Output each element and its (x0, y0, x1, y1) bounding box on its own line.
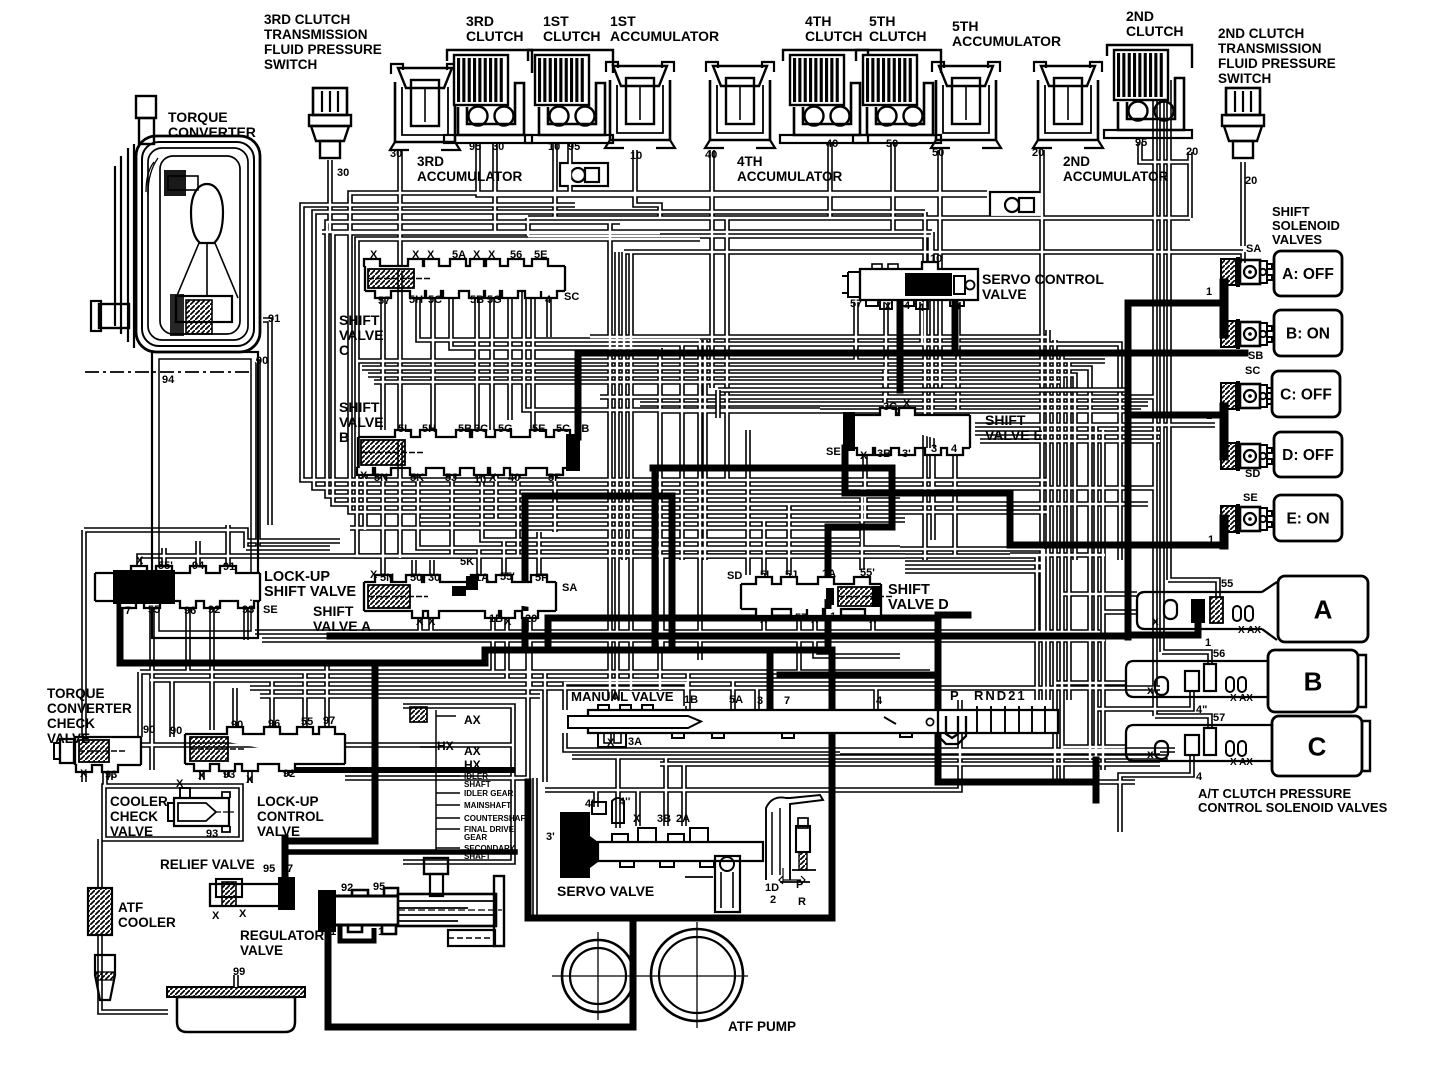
wire run y232 (322, 229, 932, 235)
wire run y368 (362, 368, 1090, 760)
servo accumulator tube (685, 856, 740, 912)
wire LCV stub X (199, 765, 205, 780)
svg-text:5J: 5J (785, 569, 797, 581)
svg-text:MANUAL VALVE: MANUAL VALVE (571, 689, 674, 704)
wire 3rd clutch line 95 (478, 142, 575, 195)
svg-text:SD: SD (727, 570, 742, 582)
svg-text:1D: 1D (765, 882, 779, 894)
shift solenoid B (1221, 319, 1272, 349)
wire thick y675 (780, 672, 938, 679)
svg-text:90: 90 (231, 719, 243, 731)
svg-text:5E: 5E (532, 423, 545, 435)
svg-text:X: X (360, 470, 368, 482)
svg-text:X AX: X AX (1230, 757, 1253, 768)
svg-text:95: 95 (469, 141, 481, 153)
svg-text:10: 10 (930, 253, 942, 265)
svg-text:A: A (1314, 594, 1333, 624)
wire TCCV riser 90a (137, 672, 143, 737)
wire thick SCV 4 down (897, 300, 904, 390)
wire box SVC 2 (302, 205, 1048, 480)
wire TCCV stub 93 (107, 768, 113, 780)
svg-text:X: X (412, 249, 420, 261)
manual valve X 3A port box (598, 733, 626, 747)
wire run y752 (840, 749, 1160, 755)
accumulator 4TH (705, 62, 775, 148)
wire run y520 (420, 517, 905, 523)
shift valve D spool black land (826, 586, 881, 607)
wire LUSV 93 down (243, 601, 249, 640)
svg-text:P: P (796, 879, 803, 891)
wire thick y770 (290, 767, 512, 773)
svg-text:3B: 3B (877, 448, 891, 460)
svg-text:7: 7 (784, 695, 790, 707)
shift solenoid C (1221, 381, 1272, 411)
wire LCV stub 96 up (269, 680, 275, 727)
wire run y195 (575, 192, 987, 198)
svg-text:X: X (427, 249, 435, 261)
svg-text:3C: 3C (883, 401, 897, 413)
svg-text:5N: 5N (374, 472, 388, 484)
svg-text:SA: SA (562, 582, 577, 594)
shift valve C (364, 259, 565, 298)
svg-text:2: 2 (770, 894, 776, 906)
svg-text:3': 3' (902, 448, 911, 460)
wire 2nd TFPS line 20 (1240, 162, 1246, 246)
manual valve detent (P RND21) (884, 706, 1045, 744)
svg-text:5A: 5A (452, 249, 466, 261)
svg-text:91: 91 (223, 561, 235, 573)
svg-text:AX: AX (464, 744, 481, 758)
clutch 3RD (444, 50, 532, 143)
wire solenoid A-B jumper (1220, 283, 1229, 334)
svg-text:X: X (607, 737, 615, 749)
wire SVC port 4 (546, 291, 552, 337)
svg-text:30: 30 (492, 141, 504, 153)
svg-text:1: 1 (1205, 637, 1211, 649)
svg-text:X: X (136, 555, 144, 567)
pressure switch 3rd clutch TFPS (309, 88, 351, 158)
svg-text:SB: SB (1248, 350, 1263, 362)
solenoid state box D (1274, 432, 1342, 477)
wire box SVD left2 (659, 556, 665, 650)
wire y390 drop (715, 390, 721, 418)
wire vertical x727 (724, 218, 730, 480)
wire 2nd clutch line 20 (1187, 152, 1193, 218)
wire box SVD right (1041, 549, 1047, 700)
wire cores (white centers of all pipes) (84, 60, 1243, 1012)
wire thick 3prime (828, 468, 892, 650)
solenoid state box C (1272, 371, 1340, 417)
shaft pointer lines (410, 707, 460, 850)
wire SVA 1A up (476, 548, 482, 575)
wire SVB 40 (515, 468, 521, 556)
wire thick y782 (938, 779, 1096, 786)
clutch 2ND (1104, 45, 1192, 138)
wire SVA up1 (380, 558, 386, 575)
wire SVA 1B down (490, 611, 496, 672)
wire run y361 (356, 358, 1105, 364)
svg-text:P: P (950, 688, 959, 703)
svg-text:4: 4 (876, 695, 883, 707)
svg-text:D: OFF: D: OFF (1282, 447, 1334, 464)
wire vertical x1103 (1100, 430, 1106, 770)
check valve (orifice) top-left (560, 163, 608, 186)
wire cooler to pan (100, 935, 168, 1012)
wire thick y636 (330, 633, 1128, 640)
wire 3rd accumulator line 30 (397, 150, 403, 558)
wire servo control 10 feed (528, 236, 930, 263)
wire 90 line (256, 362, 258, 548)
check valve (orifice) near 2nd accumulator (990, 192, 1042, 217)
wire run y778l (345, 775, 528, 781)
cooler check valve (168, 788, 234, 832)
svg-text:30: 30 (337, 167, 349, 179)
svg-text:2A: 2A (676, 813, 690, 825)
wire container A feed 2 (1103, 609, 1138, 615)
wire box cooler check group (104, 786, 241, 839)
solenoid state box E (1274, 495, 1342, 541)
wire SVD down2 (796, 612, 802, 672)
svg-text:1A: 1A (475, 572, 489, 584)
wire vertical x528 (525, 640, 531, 782)
wire LUSV X (139, 556, 560, 565)
svg-text:93: 93 (206, 828, 218, 840)
wire container A port 55 (1168, 580, 1218, 598)
wire to container A (1062, 591, 1137, 597)
wire run y390 (718, 387, 1128, 393)
svg-text:40: 40 (826, 138, 838, 150)
wire SCV 3 (955, 302, 961, 411)
wire run y790 (545, 700, 960, 790)
wire run y640 (262, 637, 1105, 643)
svg-text:5H: 5H (422, 423, 436, 435)
regulator valve (318, 858, 504, 946)
svg-text:X: X (370, 569, 378, 581)
wire SVA 55 up (501, 540, 507, 575)
wire run y571 (905, 568, 1044, 574)
svg-text:5K: 5K (410, 472, 424, 484)
wire SVC port 57 (380, 291, 386, 430)
wire SVC port 56 (507, 291, 513, 420)
wire container B port 4pp (1095, 691, 1192, 709)
svg-text:B: B (1304, 666, 1323, 696)
pressure control solenoid A (1137, 582, 1277, 640)
wire box SVD top (655, 546, 1044, 552)
svg-text:5L: 5L (760, 569, 773, 581)
clutch pressure box B shadow (1358, 655, 1366, 707)
svg-text:1A: 1A (822, 568, 836, 580)
svg-text:4: 4 (918, 302, 925, 314)
wire SVC port 5H (418, 291, 700, 340)
wire vertical x1155 (1152, 60, 1158, 716)
wire thick to A/B solenoids (1128, 300, 1224, 307)
wire SVE 4 (952, 450, 958, 556)
wire elbow x528 (525, 218, 531, 236)
wire LCV stub 92 (284, 765, 290, 776)
clutch pressure box A (1278, 576, 1368, 642)
wire thick x1128 (1125, 303, 1132, 637)
wire box SVC 3 (314, 212, 1155, 488)
wire TCCV riser 90b (169, 680, 175, 737)
wire thick main run (120, 597, 832, 663)
svg-text:10: 10 (630, 150, 642, 162)
wire thick x938 (935, 615, 942, 782)
wire SVA 5F up (536, 532, 542, 575)
servo piston dimension arrows (779, 876, 805, 884)
wire SVD down3 (815, 612, 900, 656)
wire thick SE to E solenoid (845, 448, 1221, 545)
wire manual 1B up (685, 672, 691, 710)
shift valve A (364, 575, 556, 618)
wire servo stub 4p (593, 790, 599, 807)
svg-text:SE: SE (263, 604, 278, 616)
wire manual 4 up (873, 688, 879, 710)
svg-text:RND21: RND21 (974, 688, 1027, 703)
wire left x84 (81, 530, 87, 737)
svg-text:50: 50 (410, 572, 422, 584)
svg-text:X: X (869, 614, 877, 626)
svg-text:SERVO VALVE: SERVO VALVE (557, 883, 654, 899)
svg-text:X: X (473, 249, 481, 261)
shift solenoid E (1221, 504, 1272, 534)
wire vertical x1055 (1052, 340, 1058, 782)
wire 5th clutch line 50 (890, 142, 896, 232)
svg-text:SC: SC (1245, 365, 1260, 377)
wire to container B (1055, 680, 1126, 686)
clutch pressure box C (1272, 716, 1362, 776)
wire SVB X (362, 468, 368, 530)
wire box SVC right edge (922, 212, 928, 560)
svg-text:X: X (80, 768, 88, 780)
svg-text:5J: 5J (445, 472, 457, 484)
svg-text:30: 30 (428, 572, 440, 584)
svg-text:1: 1 (830, 611, 836, 623)
svg-text:94: 94 (192, 560, 205, 572)
wire thick y468 (653, 465, 892, 472)
wire vertical x1069 (1066, 360, 1072, 700)
wire run y745 (100, 742, 512, 748)
accumulator 3RD (390, 64, 460, 150)
wire LUSV 55' (161, 548, 167, 565)
svg-text:30: 30 (390, 148, 402, 160)
svg-text:HX: HX (464, 758, 481, 772)
wire vertical x1062 (1059, 350, 1065, 782)
svg-text:7: 7 (125, 605, 131, 617)
wire 99 stub (233, 975, 239, 987)
svg-text:56: 56 (510, 249, 522, 261)
wire container B port 56 (1162, 652, 1210, 664)
svg-text:5K: 5K (460, 556, 474, 568)
wire SVE 3 (930, 450, 936, 540)
svg-text:X: X (212, 910, 220, 922)
accumulator 5TH (931, 62, 1001, 148)
svg-text:5F: 5F (548, 472, 561, 484)
svg-text:5G: 5G (498, 423, 513, 435)
svg-text:5F: 5F (535, 572, 548, 584)
wire vertical x545 (542, 672, 548, 782)
svg-text:X: X (176, 778, 184, 790)
svg-text:50: 50 (932, 147, 944, 159)
wire run y782 (940, 779, 1135, 785)
wire run y672 (140, 669, 930, 675)
wire manual 5A up (730, 680, 736, 710)
svg-text:55': 55' (158, 560, 173, 572)
wire run y411 (660, 408, 1141, 414)
svg-text:55': 55' (860, 567, 875, 579)
wire run y337 (590, 334, 1048, 340)
svg-text:90: 90 (256, 355, 268, 367)
wire box SVD top2 (662, 553, 1037, 559)
ATF cooler (88, 888, 112, 935)
wire SVD 55 up (859, 488, 865, 570)
servo valve (560, 798, 763, 878)
wire SVA 20 down (527, 611, 533, 688)
svg-text:4: 4 (904, 300, 911, 312)
svg-text:X: X (811, 614, 819, 626)
svg-text:5L: 5L (398, 423, 411, 435)
wire thick y496 (525, 493, 672, 500)
svg-text:5C: 5C (556, 423, 570, 435)
wire SVE 3C up (882, 370, 888, 415)
svg-text:5B: 5B (458, 423, 472, 435)
svg-text:1: 1 (330, 926, 336, 938)
wire thick regulator loop (328, 918, 633, 1027)
svg-text:94: 94 (162, 374, 175, 386)
svg-text:X: X (488, 249, 496, 261)
wire SCV 4 (919, 302, 925, 344)
wire run y528 (350, 525, 860, 531)
svg-text:X: X (760, 614, 768, 626)
svg-text:1B: 1B (684, 694, 698, 706)
svg-text:5N: 5N (380, 572, 394, 584)
wire run y404 (640, 401, 1148, 407)
wire LCV stub X2 (247, 765, 253, 783)
wire SVD SD up (745, 430, 751, 575)
svg-text:COUNTERSHAFT: COUNTERSHAFT (464, 814, 530, 823)
clutch pressure box B (1268, 650, 1358, 712)
svg-text:92: 92 (283, 768, 295, 780)
wire 1st accumulator line 10 (635, 150, 660, 218)
svg-text:96: 96 (184, 605, 196, 617)
svg-text:90: 90 (170, 725, 182, 737)
servo control valve (842, 262, 978, 309)
solenoid state box B (1274, 310, 1342, 356)
shift valve B (357, 430, 580, 475)
wire container C port 57 (1155, 716, 1210, 728)
torque converter check valve end cap (54, 739, 74, 763)
wire SVC port 5Cb (524, 291, 820, 410)
servo band piston (766, 760, 823, 882)
wire box manual valve label (565, 683, 686, 710)
wire thick x548 (545, 618, 552, 643)
wire box manual valve bottom (565, 733, 1175, 750)
svg-text:95: 95 (263, 863, 275, 875)
wire thick x525 (522, 496, 529, 650)
wire vertical x1162 (1159, 70, 1165, 652)
wire SVA down1 (417, 611, 423, 640)
wire SA line (624, 249, 1243, 255)
wire 3rd TFPS line 30 (327, 160, 333, 232)
svg-text:56: 56 (1213, 648, 1225, 660)
wire thick servo box right (829, 650, 836, 918)
wire 1st clutch line 95 (567, 142, 573, 195)
wire LCV stub 55 up (302, 672, 308, 727)
svg-text:4": 4" (1196, 704, 1207, 716)
wire LCV stub 97 up (324, 663, 330, 727)
wire run y344 (600, 344, 1120, 560)
wire 4th clutch line 40 (827, 142, 833, 218)
svg-text:x: x (1152, 614, 1159, 628)
svg-text:SC: SC (564, 291, 579, 303)
pressure control solenoid B (1126, 661, 1269, 704)
wire vertical x705 (702, 340, 708, 560)
svg-text:SHAFT: SHAFT (464, 852, 491, 861)
wire run y688 (250, 685, 1160, 691)
wire vertical x700 (697, 340, 703, 660)
svg-text:4': 4' (585, 798, 594, 810)
wire to container C (1062, 744, 1126, 750)
shift solenoid D (1221, 441, 1272, 471)
wire to cooler (97, 839, 103, 888)
wire thick servo box left+bottom (528, 782, 832, 918)
wire SVB X2 (493, 468, 499, 520)
wire run y548 (246, 545, 330, 551)
wire container C port 4 (1120, 755, 1192, 832)
wire servo stub 2A (681, 764, 687, 826)
wire SCV 57 (853, 302, 859, 361)
svg-text:55': 55' (500, 571, 515, 583)
lock-up control valve (185, 727, 345, 771)
wire SVA up2 (411, 560, 417, 575)
svg-text:A: OFF: A: OFF (1282, 266, 1334, 283)
wire thick relief riser2 (285, 663, 375, 841)
svg-text:10: 10 (474, 474, 486, 486)
wire solenoid C-D jumper (1220, 407, 1229, 456)
svg-text:3B: 3B (657, 813, 671, 825)
svg-text:X: X (239, 908, 247, 920)
svg-text:X: X (504, 616, 512, 628)
svg-text:55: 55 (301, 716, 313, 728)
svg-text:X: X (198, 770, 206, 782)
wire LUSV 91 (225, 525, 231, 565)
wire run y541 (246, 538, 340, 544)
wire thick to container A port 1 (1128, 622, 1198, 635)
svg-text:95: 95 (373, 881, 385, 893)
svg-text:5H: 5H (409, 294, 423, 306)
shift valve D (741, 577, 892, 616)
svg-text:99: 99 (233, 966, 245, 978)
wire SVC port 5G (489, 291, 495, 430)
wire vertical x1048 (1045, 330, 1051, 700)
svg-text:57: 57 (1213, 712, 1225, 724)
shift valve A black land at 1A (452, 576, 478, 596)
svg-text:20: 20 (525, 613, 537, 625)
svg-text:3A: 3A (628, 736, 642, 748)
wire servo box left (532, 778, 538, 916)
oil pan (167, 987, 305, 1032)
wire LUSV 55 down (149, 601, 155, 770)
svg-text:ATF PUMP: ATF PUMP (728, 1019, 796, 1034)
svg-text:X: X (884, 301, 892, 313)
wire box SVD left (652, 549, 658, 650)
svg-text:GEAR: GEAR (464, 833, 487, 842)
wire SB feed (575, 358, 582, 437)
wire run y433 (975, 430, 1160, 436)
wire thick relief riser1 (282, 838, 289, 880)
clutch pressure box C shadow (1362, 721, 1370, 771)
ATF strainer funnel (95, 955, 115, 1000)
wire SVD down1 (761, 612, 767, 640)
